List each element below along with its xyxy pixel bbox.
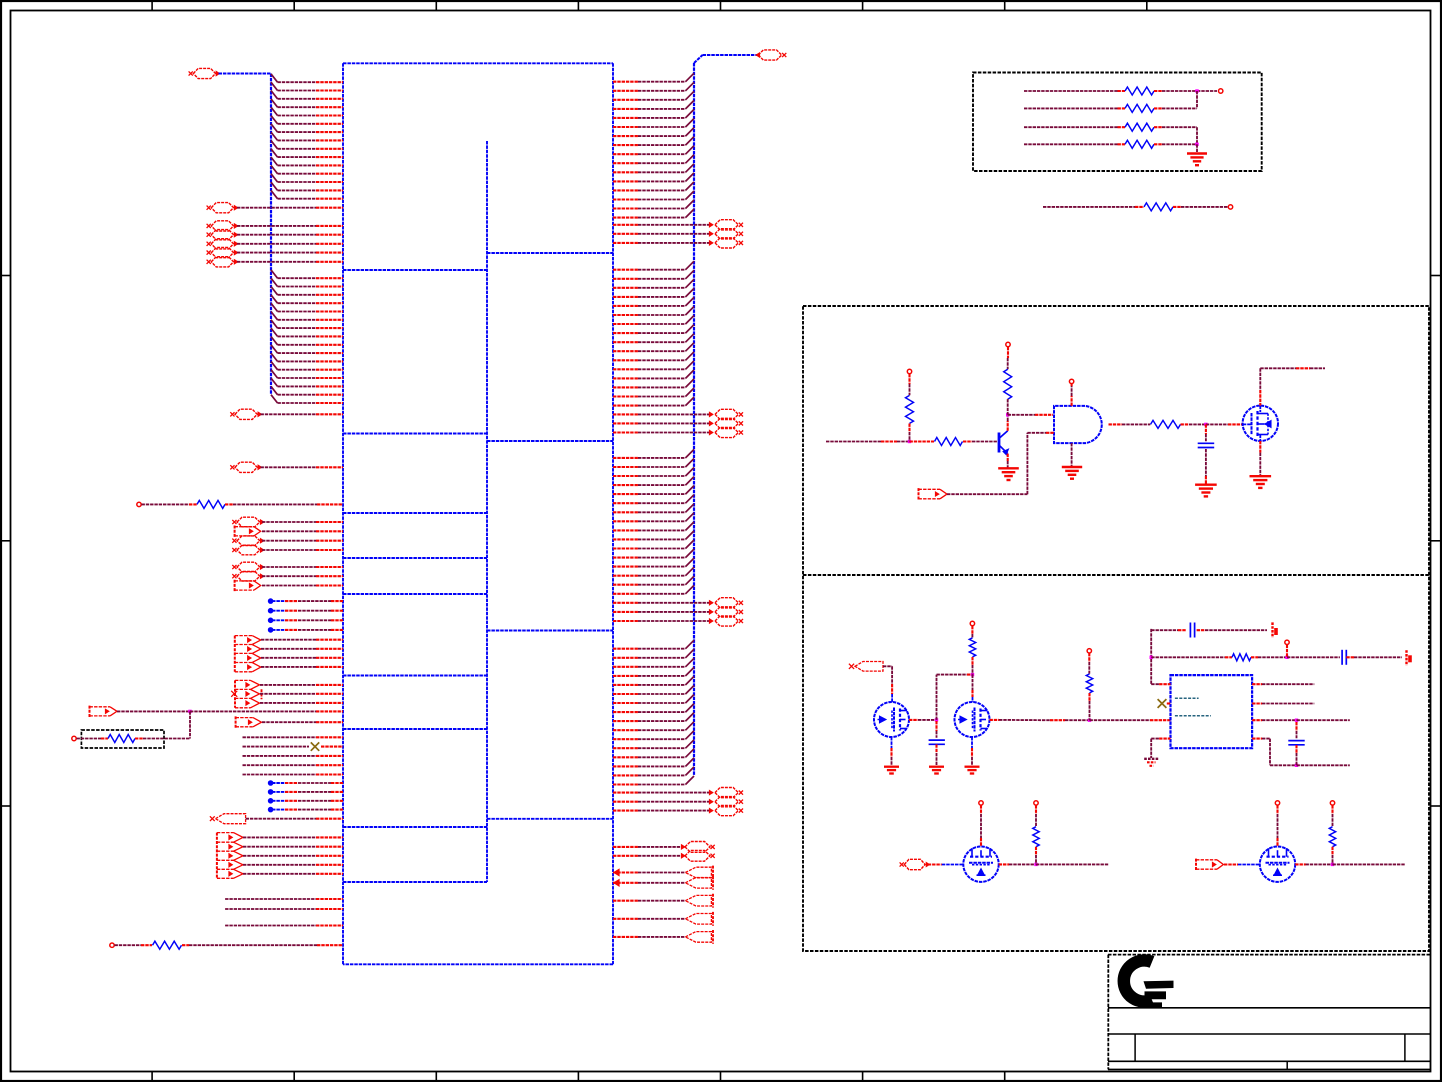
output wire xyxy=(1036,863,1109,865)
wire pin row right xyxy=(613,359,638,361)
wire pin row right xyxy=(613,511,638,513)
connector row right xyxy=(613,810,638,812)
wire pin row right xyxy=(613,341,638,343)
Q3 right lead xyxy=(909,719,918,721)
off-page connector P6 xyxy=(237,536,260,546)
output port PO2 xyxy=(685,895,711,906)
wire pin row right xyxy=(613,144,638,146)
wire pin row right xyxy=(613,557,638,559)
output port PO xyxy=(685,867,711,878)
wire R3-R4 join xyxy=(1196,127,1198,144)
terminal circle xyxy=(1228,205,1232,209)
AND gate U2 xyxy=(1054,406,1102,443)
wire pin row right xyxy=(613,323,638,325)
wire to left bus xyxy=(219,73,272,75)
off-page connector P3_3 xyxy=(211,248,233,258)
resistor R1 xyxy=(1024,90,1118,92)
off-page connector P3_0 xyxy=(211,221,233,231)
wire pin row left xyxy=(271,353,278,361)
wire pin row left xyxy=(271,370,278,378)
U3 pin 2 no-connect xyxy=(1158,699,1167,708)
series resistors dashed box xyxy=(973,73,1262,172)
wire pin row right xyxy=(613,395,638,397)
U3 pin 1 xyxy=(1159,683,1170,685)
wire pin row right xyxy=(613,765,638,767)
resistor R3 xyxy=(1024,126,1118,128)
wire pin row left xyxy=(271,361,278,369)
terminal circle xyxy=(1006,342,1010,346)
connector row right xyxy=(613,602,638,604)
wire pin row right xyxy=(613,484,638,486)
resistor R5 row xyxy=(1043,206,1135,208)
terminal circle xyxy=(979,801,983,805)
wire pin row right xyxy=(613,711,638,713)
off-page connector P6 xyxy=(237,545,260,555)
junction xyxy=(1195,89,1198,92)
wire pin row right xyxy=(613,684,638,686)
wire pin row left xyxy=(271,278,278,286)
wire pin row right xyxy=(613,575,638,577)
off-page connector PRS xyxy=(685,842,710,853)
connector group PG3 xyxy=(216,833,218,879)
wire pin row right xyxy=(613,350,638,352)
left vertical net xyxy=(1150,629,1152,684)
wire pin row right xyxy=(613,99,638,101)
U3 right pins xyxy=(1252,683,1262,685)
junction xyxy=(935,718,938,721)
junction xyxy=(1285,656,1288,659)
wire pin row right xyxy=(613,747,638,749)
output port PO2 xyxy=(685,932,711,943)
wire pin row left xyxy=(271,99,278,107)
capacitor C1 xyxy=(1205,424,1207,434)
wire pin row right xyxy=(613,81,638,83)
capacitor C4 xyxy=(1341,650,1343,665)
connector row right xyxy=(613,233,638,235)
junction xyxy=(1331,863,1334,866)
dark ground xyxy=(1144,758,1158,760)
off-page connector top-right xyxy=(756,53,759,57)
wire pin row right xyxy=(613,702,638,704)
wire pin row left xyxy=(271,312,278,320)
ground xyxy=(884,766,899,768)
connector row right xyxy=(613,242,638,244)
red bar terminal xyxy=(1271,622,1273,637)
source to ground xyxy=(1259,435,1261,441)
input port lower xyxy=(849,664,854,669)
output port PO xyxy=(685,878,711,889)
junction xyxy=(1088,719,1091,722)
terminal circle xyxy=(1275,801,1279,805)
off-page connector PR xyxy=(715,788,738,798)
wire pin row right xyxy=(613,547,638,549)
resistor R7 xyxy=(935,438,963,446)
plain pin rows xyxy=(225,898,316,900)
IC U3 xyxy=(1171,675,1253,748)
wire pin row right xyxy=(613,502,638,504)
wire pin row right xyxy=(613,738,638,740)
wire pin row left xyxy=(271,395,278,403)
output port PO2 xyxy=(685,914,711,925)
terminal circle xyxy=(1330,801,1334,805)
off-page connector PB xyxy=(904,859,925,869)
bus tap xyxy=(268,618,272,622)
port connector P7f xyxy=(234,580,236,592)
off-page connector PR xyxy=(715,409,738,419)
wire pin row left xyxy=(271,91,278,99)
MOSFET body xyxy=(1260,847,1295,882)
MOSFET body xyxy=(963,847,998,882)
wire pin row right xyxy=(613,171,638,173)
MOSFET body xyxy=(955,702,990,737)
off-page connector PR xyxy=(715,238,738,248)
wire pin row right xyxy=(613,90,638,92)
wire pin row right xyxy=(613,180,638,182)
wire pin row left xyxy=(271,82,278,90)
wire pin row left xyxy=(271,378,278,386)
bus tap xyxy=(268,609,272,613)
off-page connector P7 xyxy=(237,571,260,581)
wire pin row left xyxy=(271,157,278,165)
wire pin row right xyxy=(613,729,638,731)
terminal circle xyxy=(907,369,911,373)
off-page connector P1 xyxy=(193,68,215,78)
resistor R9 xyxy=(1151,420,1181,428)
off-page connector P6 xyxy=(237,517,260,527)
off-page connector P7 xyxy=(237,562,260,572)
wire pin row left xyxy=(271,182,278,190)
wire pin row right xyxy=(613,593,638,595)
emitter to ground xyxy=(1007,454,1009,461)
wire pin row right xyxy=(613,153,638,155)
connector row right xyxy=(613,413,638,415)
wire pin row right xyxy=(613,189,638,191)
wire pin row left xyxy=(271,107,278,115)
terminal circle xyxy=(1069,379,1073,383)
off-page connector PR xyxy=(715,229,738,239)
junction xyxy=(1150,656,1153,659)
collector net xyxy=(1007,421,1009,431)
off-page connector P3_2 xyxy=(211,239,233,249)
wire collector to gate input xyxy=(1008,414,1035,416)
junction xyxy=(1034,863,1037,866)
wire pin row right xyxy=(613,269,638,271)
connector row right xyxy=(613,611,638,613)
wire pin row right xyxy=(613,126,638,128)
wire pin row left xyxy=(271,303,278,311)
wire pin row left xyxy=(271,320,278,328)
ground xyxy=(998,467,1019,469)
wire pin row right xyxy=(613,657,638,659)
wire branch down to resistor xyxy=(189,711,191,738)
connector row right xyxy=(613,431,638,433)
terminal circle xyxy=(1285,640,1289,644)
terminal circle xyxy=(110,943,114,947)
wire pin row right xyxy=(613,162,638,164)
U1 left-half section dividers xyxy=(343,269,487,271)
capacitor C2 xyxy=(935,721,937,731)
plain pin rows xyxy=(243,736,317,738)
ground xyxy=(1062,466,1082,468)
connector row right xyxy=(613,224,638,226)
off-page connector PRS xyxy=(685,850,710,861)
off-page connector P4 xyxy=(235,409,257,419)
off-page connector P5 xyxy=(235,462,257,472)
wire pin row left xyxy=(271,141,278,149)
wire pin row right xyxy=(613,386,638,388)
right lead xyxy=(1295,863,1305,865)
bus tap xyxy=(268,781,272,785)
U3 internal text xyxy=(1175,697,1199,699)
U3 pin 4 to ground xyxy=(1159,738,1170,740)
ground xyxy=(1187,152,1207,154)
connector row right xyxy=(613,620,638,622)
wire pin row left xyxy=(271,74,278,82)
wire pin row right xyxy=(613,287,638,289)
off-page connector P2 xyxy=(211,203,233,213)
U1 right-half section dividers xyxy=(487,252,613,254)
wire pin row right xyxy=(613,217,638,219)
wire pin row left xyxy=(271,337,278,345)
output wire xyxy=(1333,863,1406,865)
wire pin row right xyxy=(613,648,638,650)
drain net xyxy=(1259,406,1261,412)
wire pin row left xyxy=(271,132,278,140)
gate output xyxy=(1109,423,1123,425)
wire pin row left xyxy=(271,190,278,198)
connector row right small xyxy=(613,846,638,848)
connector row right small xyxy=(613,855,638,857)
wire pin row right xyxy=(613,332,638,334)
wire pin row left xyxy=(271,295,278,303)
resistor R11 in dashed box xyxy=(81,730,164,748)
wire pin row left xyxy=(271,124,278,132)
bus tap xyxy=(268,628,272,632)
gate power pin xyxy=(1071,396,1073,406)
wire pin row left xyxy=(271,287,278,295)
MOSFET body xyxy=(874,702,909,737)
wire pin row right xyxy=(613,117,638,119)
terminal circle xyxy=(1034,801,1038,805)
off-page connector PR xyxy=(715,607,738,617)
off-page connector PR xyxy=(715,220,738,230)
wire pin row right xyxy=(613,520,638,522)
junction xyxy=(908,440,911,443)
red bar terminal xyxy=(1405,650,1407,665)
wire R1-R2 join xyxy=(1197,90,1217,92)
terminal circle xyxy=(137,502,141,506)
off-page connector PR xyxy=(715,418,738,428)
section divider xyxy=(803,574,1429,576)
terminal circle xyxy=(970,621,974,625)
off-page connector P3_4 xyxy=(211,257,233,267)
right vertical bus xyxy=(693,63,695,775)
wire pin row right xyxy=(613,466,638,468)
wire pin row left xyxy=(271,328,278,336)
connector row right xyxy=(613,792,638,794)
wire pin row right xyxy=(613,783,638,785)
title block xyxy=(1108,954,1431,956)
terminal circle xyxy=(72,736,76,740)
resistor R2 xyxy=(1024,107,1118,109)
connector row right xyxy=(613,422,638,424)
connector group PG1 xyxy=(234,636,236,672)
wire pin row right xyxy=(613,368,638,370)
connector group PG2 xyxy=(234,680,236,707)
wire pin row right xyxy=(613,207,638,209)
Q4 source to ground xyxy=(971,737,973,748)
bus tap xyxy=(268,790,272,794)
wire pin row right xyxy=(613,457,638,459)
bus corner to top connector xyxy=(694,55,703,63)
mid row with resistor R15 xyxy=(1151,656,1225,658)
wire pin row right xyxy=(613,584,638,586)
transistor Q1 NPN xyxy=(998,433,1001,453)
output port row (left pointing) xyxy=(210,816,215,821)
wire pin row right xyxy=(613,405,638,407)
junction xyxy=(1295,764,1298,767)
wire pin row right xyxy=(613,108,638,110)
wire pin row right xyxy=(613,493,638,495)
wire pin row right xyxy=(613,538,638,540)
bus tap xyxy=(268,799,272,803)
no-connect X xyxy=(311,742,319,750)
wire pin row right xyxy=(613,675,638,677)
wire pin row left xyxy=(271,116,278,124)
port connector P6f xyxy=(234,526,236,538)
wire pin row right xyxy=(613,314,638,316)
wire to base resistor xyxy=(910,440,935,442)
resistor R4 xyxy=(1024,143,1118,145)
connector row right xyxy=(613,801,638,803)
ground xyxy=(929,766,944,768)
port connector PBf xyxy=(1195,859,1197,871)
wire pin row right xyxy=(613,296,638,298)
gate ground pin xyxy=(1071,443,1073,466)
wire pin row left xyxy=(271,165,278,173)
output rows with edge arrows xyxy=(614,869,619,875)
wire pin row right xyxy=(613,135,638,137)
right lead xyxy=(999,863,1009,865)
port connector PI xyxy=(918,488,920,500)
border zone ticks xyxy=(151,0,153,11)
terminal circle xyxy=(1087,649,1091,653)
Q3 source to ground xyxy=(891,737,893,748)
wire pin row right xyxy=(613,305,638,307)
wire up over to Q4 xyxy=(936,675,938,720)
ground xyxy=(1250,475,1272,477)
circuits dashed box xyxy=(803,306,1429,951)
off-page connector PR xyxy=(715,427,738,437)
output rows xyxy=(613,900,638,902)
off-page connector P3_1 xyxy=(211,230,233,240)
off-page connector PR xyxy=(715,806,738,816)
ground xyxy=(965,766,980,768)
MOSFET Q2 xyxy=(1243,406,1278,441)
company logo xyxy=(1124,961,1152,1002)
cap row top xyxy=(1151,629,1178,631)
port connector P8 xyxy=(89,706,91,718)
junction xyxy=(1006,413,1009,416)
IC U1 main block outline xyxy=(343,62,613,64)
off-page connector PT xyxy=(758,50,781,60)
wire pin row right xyxy=(613,566,638,568)
wire pin row right xyxy=(613,377,638,379)
ground xyxy=(1195,484,1217,486)
wire pin row right xyxy=(613,529,638,531)
junction xyxy=(1195,143,1198,146)
wire pin row right xyxy=(613,774,638,776)
junction xyxy=(188,710,191,713)
wire pin row right xyxy=(613,693,638,695)
wire pin row right xyxy=(613,278,638,280)
wire pin row left xyxy=(271,270,278,278)
wire pin row right xyxy=(613,720,638,722)
bus tap xyxy=(268,807,272,811)
wire pin row left xyxy=(271,149,278,157)
capacitor C3 xyxy=(1295,722,1297,731)
input wire xyxy=(826,441,881,443)
wire to Q4 drain xyxy=(972,675,974,690)
wire pin row right xyxy=(613,475,638,477)
wire to ground xyxy=(1196,144,1198,153)
wire pin row left xyxy=(271,386,278,394)
port connector P9 xyxy=(235,716,237,728)
wire pin row right xyxy=(613,666,638,668)
Q4 output wire to U3 xyxy=(990,719,1000,721)
junction xyxy=(1295,719,1298,722)
wire pin row left xyxy=(271,345,278,353)
off-page connector PR xyxy=(715,797,738,807)
junction xyxy=(971,673,974,676)
terminal circle xyxy=(1219,89,1223,93)
bus tap xyxy=(268,599,272,603)
U1 internal section divider vertical xyxy=(486,141,488,882)
off-page connector PR xyxy=(715,616,738,626)
left vertical bus xyxy=(270,74,272,395)
off-page connector PR xyxy=(715,598,738,608)
wire to Q3 drain xyxy=(891,666,893,684)
junction xyxy=(1204,423,1207,426)
wire pin row right xyxy=(613,198,638,200)
wire pin row right xyxy=(613,756,638,758)
wire pin row left xyxy=(271,174,278,182)
